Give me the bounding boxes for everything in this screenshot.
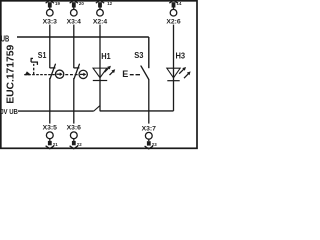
plug pin 23 (bottom, X3:7) — [145, 139, 153, 149]
plug pin 21 (bottom, X3:5) — [46, 139, 54, 149]
terminal circle X3:7 — [145, 132, 152, 139]
switch S1 mechanical linkage between contacts (dashed) — [65, 74, 79, 76]
plug pin 20 (top, X3:4) — [70, 0, 78, 9]
wire bottom horizontal H1 to H3 — [100, 110, 174, 112]
switch S1 actuator (latching handle) — [31, 58, 38, 65]
wire X3:4 down to S1 contact 2 — [73, 25, 75, 69]
wire 0V UB rail — [18, 110, 94, 112]
switch S1 operating direction arrow — [25, 71, 31, 75]
LED H1 triangle — [93, 68, 107, 78]
S1 NC contact 1 hook — [50, 67, 56, 69]
svg-text:X3:7: X3:7 — [142, 125, 157, 132]
wire UB rail corner down to S3 — [148, 37, 150, 68]
S3 NO contact blade — [141, 66, 149, 80]
switch S1 mechanical linkage (dashed) — [24, 74, 55, 76]
svg-text:X3:6: X3:6 — [67, 125, 82, 132]
switch S1 actuator stem (dashed) — [33, 64, 35, 75]
S1 NC contact 2 blade — [74, 64, 79, 78]
svg-text:X3:3: X3:3 — [43, 19, 58, 26]
wire X2:6 down through H3 to bottom horizontal — [173, 25, 175, 111]
plug pin 14 (top, X2:6) — [169, 0, 177, 9]
svg-text:X3:5: X3:5 — [43, 125, 58, 132]
LED H1 cathode bar — [93, 80, 107, 82]
LED H3 light arrow 2 — [184, 71, 191, 78]
LED H3 triangle — [167, 68, 180, 78]
switch S3 mechanical linkage (dashed) — [130, 74, 140, 76]
wire UB rail — [17, 36, 149, 38]
svg-text:21: 21 — [53, 142, 58, 147]
wire S3 down to X3:7 — [148, 80, 150, 124]
svg-text:H3: H3 — [176, 51, 186, 60]
wire angled junction to H1 column — [94, 106, 100, 111]
S1 linkage arrow 2 — [80, 73, 86, 77]
svg-text:X2:4: X2:4 — [93, 19, 108, 26]
svg-text:EUC.171759: EUC.171759 — [5, 45, 16, 104]
S1 NC contact 1 blade — [50, 64, 55, 78]
S1 linkage cross-reference circle 2 — [79, 70, 87, 78]
wire S1 contact 1 down to X3:5 — [49, 78, 51, 124]
S1 linkage cross-reference circle 1 — [55, 70, 63, 78]
terminal circle X3:6 — [70, 132, 77, 139]
wire X3:3 down to S1 contact 1 — [49, 25, 51, 69]
S1 linkage arrow 1 — [56, 72, 62, 76]
svg-text:X2:6: X2:6 — [166, 19, 181, 26]
svg-text:S1: S1 — [38, 51, 47, 60]
svg-text:20: 20 — [79, 1, 84, 6]
terminal circle X3:3 — [47, 9, 54, 16]
svg-text:23: 23 — [152, 142, 157, 147]
wire X2:4 down through H1 to bottom horizontal — [99, 25, 101, 111]
svg-text:X3:4: X3:4 — [67, 19, 82, 26]
svg-text:UB: UB — [1, 35, 10, 44]
LED H3 light arrow 1 — [179, 67, 186, 74]
LED H1 light arrow 2 — [110, 69, 116, 75]
LED H3 cathode bar — [167, 80, 179, 82]
svg-text:19: 19 — [55, 1, 60, 6]
terminal circle X2:6 — [170, 9, 177, 16]
LED H1 light arrow 1 — [105, 66, 111, 73]
S1 NC contact 2 hook — [74, 67, 80, 69]
svg-text:S3: S3 — [134, 51, 144, 60]
svg-text:0V UB: 0V UB — [0, 107, 18, 116]
svg-text:H1: H1 — [101, 52, 111, 61]
svg-text:14: 14 — [177, 1, 182, 6]
terminal circle X2:4 — [97, 9, 104, 16]
plug pin 19 (top, X3:3) — [46, 0, 54, 9]
plug pin 12 (top, X2:4) — [96, 0, 104, 9]
border frame — [1, 1, 197, 149]
wire S1 contact 2 down to X3:6 — [73, 78, 75, 124]
terminal circle X3:5 — [46, 132, 53, 139]
svg-text:22: 22 — [77, 142, 82, 147]
svg-text:12: 12 — [107, 1, 112, 6]
terminal circle X3:4 — [71, 9, 78, 16]
svg-text:E: E — [122, 69, 128, 79]
plug pin 22 (bottom, X3:6) — [70, 139, 78, 149]
